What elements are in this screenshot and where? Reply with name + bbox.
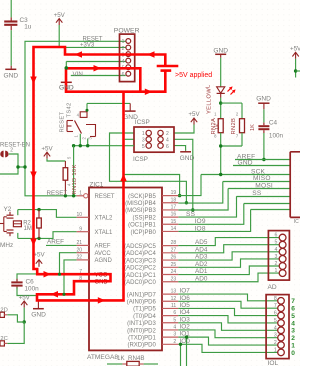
svg-text:3: 3 [142, 138, 145, 144]
svg-text:26: 26 [171, 255, 177, 261]
svg-text:XTAL2: XTAL2 [95, 216, 114, 222]
svg-text:AD3: AD3 [195, 254, 208, 261]
svg-text:2: 2 [166, 131, 169, 137]
resistor RN1D 10K [64, 161, 66, 168]
wire MOSI label line [228, 188, 290, 190]
+5V symbol right edge [292, 52, 298, 56]
svg-text:11: 11 [171, 303, 176, 309]
pin 8 GND [77, 280, 89, 282]
svg-text:>5V applied: >5V applied [175, 72, 212, 79]
svg-text:3: 3 [173, 332, 176, 338]
wire LED to resistors [220, 98, 222, 119]
ground switch [129, 103, 131, 111]
wire RESET row to ICSP [74, 145, 134, 147]
svg-text:IO4: IO4 [180, 309, 191, 316]
svg-text:1: 1 [274, 347, 277, 353]
svg-text:7: 7 [274, 303, 277, 309]
svg-text:3: 3 [274, 333, 277, 339]
pin 14 (ICP)PB0 [162, 230, 178, 232]
ground label above LED [215, 53, 226, 55]
svg-text:GND: GND [213, 48, 228, 55]
arrow flow up return [120, 174, 127, 182]
ground bottom-left [37, 301, 39, 308]
pin 23 (ADC0)PC0 [162, 281, 178, 283]
pin 5 (INT1)PD3 [162, 322, 178, 324]
wire IO0 net [178, 344, 277, 352]
wire XTAL1 net [17, 233, 19, 239]
svg-text:21: 21 [76, 240, 82, 246]
svg-text:+5V: +5V [19, 294, 31, 301]
svg-text:RESET: RESET [60, 112, 66, 133]
connector POWER [120, 34, 135, 82]
svg-text:2: 2 [173, 339, 176, 345]
wire jumper to RESET net [0, 154, 18, 174]
node R2 top [37, 208, 40, 211]
svg-text:MISO: MISO [253, 175, 271, 182]
svg-text:28: 28 [171, 240, 177, 246]
pin 3 (TXD)PD1 [162, 336, 178, 338]
svg-text:17: 17 [171, 205, 177, 211]
svg-text:RESET: RESET [83, 37, 103, 43]
wire GND net from POWER pin4 [66, 61, 125, 63]
svg-text:ICSP: ICSP [133, 156, 148, 163]
svg-text:AD: AD [268, 284, 277, 291]
node MISO row18 [185, 201, 188, 204]
wire row17 to MOSI line [178, 189, 228, 211]
wire ICSP VCC to +5V [174, 125, 194, 134]
svg-text:16: 16 [171, 212, 177, 218]
pin 16 (SS)PB2 [162, 216, 178, 218]
pin 18 (MISO)PB4 [162, 202, 178, 204]
arrow flow left GND [51, 291, 59, 298]
svg-text:(ADC1)PC1: (ADC1)PC1 [124, 273, 156, 279]
svg-text:+5V: +5V [188, 111, 200, 118]
wire ICSP MISO net [110, 133, 187, 203]
svg-text:(SCK)PB5: (SCK)PB5 [128, 194, 156, 200]
+5V symbol top-left [56, 19, 62, 23]
pin 13 (AIN1)PD7 [162, 293, 178, 295]
svg-text:GND: GND [31, 311, 46, 318]
pin 4 (INT0)PD2 [162, 329, 178, 331]
svg-text:IC: IC [294, 219, 299, 225]
svg-text:(RXD)PD0: (RXD)PD0 [127, 343, 156, 349]
svg-text:GND: GND [123, 114, 138, 121]
wire +3V3 net [58, 25, 60, 47]
wire C3 to ground [10, 30, 12, 66]
pin 9 XTAL1 [77, 231, 89, 233]
svg-text:GND: GND [59, 85, 74, 92]
svg-text:5: 5 [274, 318, 277, 324]
svg-text:(SS)PB2: (SS)PB2 [132, 215, 156, 221]
svg-text:5: 5 [142, 144, 145, 150]
pin 27 (ADC4)PC4 [162, 252, 178, 254]
wire AGND net [64, 260, 77, 294]
gate 2C [0, 341, 4, 346]
wire row18 to MISO line [178, 182, 223, 204]
svg-text:4: 4 [274, 325, 277, 331]
arrow flow down 3 [30, 239, 37, 247]
battery >5V applied [157, 65, 179, 68]
node MOSI row17 [191, 208, 194, 211]
node SCK row19 [178, 194, 181, 197]
pin 25 (ADC2)PC2 [162, 266, 178, 268]
svg-text:RESET-EN: RESET-EN [0, 142, 30, 148]
svg-text:+5V: +5V [54, 12, 66, 19]
svg-text:(T1)PD5: (T1)PD5 [133, 307, 156, 313]
+5V symbol near ICSP [191, 118, 197, 122]
pin 10 XTAL2 [77, 216, 89, 218]
+5V symbol at VCC corner [36, 260, 42, 264]
svg-text:(MISO)PB4: (MISO)PB4 [125, 201, 156, 207]
svg-text:1K: 1K [215, 123, 221, 130]
svg-text:RESET: RESET [47, 190, 68, 197]
svg-text:6: 6 [274, 311, 277, 317]
svg-text:IO6: IO6 [180, 295, 191, 302]
wire AD1 net [178, 266, 279, 275]
wire +5V right edge [295, 59, 297, 78]
svg-text:22: 22 [76, 255, 82, 261]
svg-text:1: 1 [79, 190, 82, 196]
svg-text:2: 2 [122, 46, 125, 52]
pin 17 (MOSI)PB3 [162, 209, 178, 211]
svg-text:9: 9 [79, 226, 82, 232]
svg-text:MHz: MHz [0, 242, 13, 249]
wire IO9 row15 [178, 204, 244, 225]
wire TXD tap [186, 337, 188, 366]
svg-text:15: 15 [171, 219, 177, 225]
pin 26 (ADC3)PC3 [162, 259, 178, 261]
wire SCK label line [201, 174, 290, 176]
wire AD4 net [178, 245, 279, 253]
svg-text:GND: GND [238, 159, 253, 166]
wire IO8 row14 [178, 210, 250, 232]
svg-text:SS: SS [252, 190, 262, 197]
wire ICSP SCK net [125, 138, 134, 140]
wire GND label line [233, 165, 290, 167]
wire resistors to SCK line [220, 133, 222, 175]
svg-text:8: 8 [274, 296, 277, 302]
svg-text:2: 2 [291, 335, 295, 342]
arrow flow right VIN [94, 65, 102, 72]
svg-text:(ADC5)PC5: (ADC5)PC5 [124, 244, 156, 250]
wire IO7 net [178, 294, 277, 301]
resistor RN2A 1K [218, 119, 223, 133]
svg-text:1: 1 [122, 39, 125, 45]
wire RESET row down to ZIC [73, 146, 75, 196]
svg-text:(AIN0)PD6: (AIN0)PD6 [127, 300, 157, 306]
svg-text:3: 3 [291, 328, 295, 335]
connector IOL [266, 295, 289, 359]
svg-text:IO7: IO7 [180, 288, 191, 295]
svg-text:AD2: AD2 [195, 261, 208, 268]
svg-text:1: 1 [142, 131, 145, 137]
svg-text:4: 4 [291, 320, 295, 327]
pin 28 (ADC5)PC5 [162, 245, 178, 247]
svg-text:(TXD)PD1: (TXD)PD1 [128, 335, 156, 341]
svg-text:RN2B: RN2B [231, 118, 237, 135]
svg-text:RN1D 10K: RN1D 10K [72, 164, 78, 194]
node VIN-GND junction [65, 66, 68, 69]
svg-text:AD1: AD1 [195, 268, 208, 275]
node SCK-LED resistor [219, 173, 222, 176]
wire SS label line [237, 196, 291, 198]
wire highlighted +5V path [34, 47, 166, 300]
pin 2 (RXD)PD0 [162, 343, 178, 345]
svg-text:6: 6 [173, 310, 176, 316]
svg-text:12: 12 [171, 296, 177, 302]
wire XTAL2 net [17, 210, 19, 216]
svg-text:7: 7 [291, 298, 295, 305]
wire AD3 net [178, 252, 279, 260]
svg-text:GND: GND [3, 73, 18, 80]
svg-text:YELLOW: YELLOW [207, 88, 213, 114]
pin 15 (OC1)PB1 [162, 223, 178, 225]
svg-text:(INT1)PD3: (INT1)PD3 [127, 321, 156, 327]
node AGND on GND line [62, 293, 65, 296]
svg-text:XTAL1: XTAL1 [95, 230, 114, 236]
connector ICSP [134, 127, 174, 152]
svg-text:23: 23 [171, 276, 177, 282]
ground C3 [10, 66, 12, 70]
pin 1 RESET [77, 195, 84, 197]
wire AVCC net [60, 253, 77, 275]
node VIN-GND junction overlay [65, 66, 68, 69]
svg-text:4: 4 [122, 59, 125, 65]
wire AD0 net [178, 273, 279, 282]
svg-text:19: 19 [171, 190, 177, 196]
svg-text:(AIN1)PD7: (AIN1)PD7 [127, 292, 157, 298]
wire MISO label line [223, 181, 290, 183]
svg-text:2: 2 [274, 340, 277, 346]
pin 12 (AIN0)PD6 [162, 300, 178, 302]
svg-text:IOL: IOL [268, 360, 279, 366]
ground near VIN (highlighted) [61, 81, 72, 83]
svg-text:6: 6 [291, 306, 295, 313]
node jumper-RESET [16, 165, 19, 168]
resistor R2 1M [38, 210, 40, 218]
svg-text:18: 18 [171, 197, 177, 203]
wire SS row16 [178, 196, 236, 217]
LED arrows [228, 88, 232, 92]
svg-text:1: 1 [291, 342, 295, 349]
svg-text:25: 25 [171, 262, 177, 268]
arrow flow right VCC [44, 271, 52, 278]
node right edge [294, 69, 297, 72]
svg-text:14: 14 [171, 226, 177, 232]
svg-text:2D: 2D [0, 307, 7, 313]
svg-text:MOSI: MOSI [255, 182, 273, 189]
wire IO8 to edge connector [251, 209, 291, 211]
wire IO2 net [178, 330, 277, 338]
svg-text:POWER: POWER [114, 27, 140, 34]
wire IO5 net [178, 308, 277, 315]
connector right edge [290, 152, 301, 218]
wire switch pins to RESET row [79, 134, 81, 146]
svg-text:6: 6 [166, 144, 169, 150]
+5V symbol for RN1D [44, 152, 50, 156]
wire +5V to serial side [23, 308, 25, 322]
svg-text:1: 1 [275, 268, 278, 274]
wire ICSP GND [174, 146, 186, 151]
wire to gate 2D [7, 315, 24, 322]
svg-text:4: 4 [173, 325, 176, 331]
svg-text:+5V: +5V [290, 46, 300, 53]
svg-text:ATMEGA8: ATMEGA8 [87, 354, 118, 361]
svg-text:1u: 1u [24, 24, 32, 31]
wire highlighted VIN branch [66, 68, 140, 91]
wire IO1 net [178, 337, 277, 345]
svg-text:2: 2 [10, 148, 13, 154]
svg-text:+5V: +5V [41, 146, 53, 153]
svg-text:5: 5 [275, 240, 278, 246]
svg-text:6: 6 [275, 233, 278, 239]
wire IO6 net [178, 301, 277, 308]
svg-text:(ADC3)PC3: (ADC3)PC3 [124, 258, 156, 264]
pin 22 AGND [77, 259, 89, 261]
wire +5V to RN1D [47, 159, 65, 161]
wire AD5 net [178, 238, 279, 246]
svg-text:2: 2 [275, 261, 278, 267]
capacitor C6 100n [17, 274, 36, 281]
pin 19 (SCK)PB5 [162, 195, 178, 197]
svg-text:(MOSI)PB3: (MOSI)PB3 [125, 208, 156, 214]
arrow flow down 2 [30, 172, 37, 180]
svg-text:IO2: IO2 [180, 324, 191, 331]
LED yellow [217, 87, 225, 93]
wire highlighted GND return [66, 68, 165, 91]
gate 2D [0, 312, 4, 317]
svg-text:IO3: IO3 [180, 316, 191, 323]
svg-text:+3V3: +3V3 [80, 43, 95, 49]
wire AD2 net [178, 259, 279, 267]
svg-text:IO5: IO5 [180, 302, 191, 309]
svg-text:20: 20 [76, 247, 82, 253]
svg-text:100n: 100n [269, 133, 284, 140]
wire IO4 net [178, 316, 277, 323]
svg-text:5: 5 [291, 313, 295, 320]
svg-text:0: 0 [291, 350, 295, 357]
svg-text:1M: 1M [24, 226, 32, 232]
node LED cathode [219, 101, 222, 104]
svg-text:(ICP)PB0: (ICP)PB0 [130, 230, 156, 236]
svg-text:C4: C4 [269, 120, 278, 127]
svg-text:+5V: +5V [33, 252, 45, 259]
svg-text:GND: GND [256, 96, 271, 103]
wire ICSP MOSI riser [174, 139, 193, 210]
svg-text:IO8: IO8 [195, 225, 206, 232]
svg-text:AD5: AD5 [195, 239, 208, 246]
arrow flow left top [75, 51, 83, 58]
node AVCC on +5V line [58, 273, 61, 276]
svg-text:(ADC2)PC2: (ADC2)PC2 [124, 266, 156, 272]
capacitor C3 [10, 0, 12, 17]
svg-text:AVCC: AVCC [95, 251, 112, 257]
wire switch to GND [86, 103, 88, 110]
wire RESET net from POWER [25, 41, 126, 196]
svg-text:(OC1)PB1: (OC1)PB1 [128, 223, 156, 229]
arrow flow down 1 [30, 77, 37, 85]
svg-text:5: 5 [173, 317, 176, 323]
wire IO3 net [178, 323, 277, 331]
svg-text:(T0)PD4: (T0)PD4 [133, 314, 156, 320]
pin 7 VCC [77, 273, 89, 275]
wire AREF label line [235, 159, 290, 161]
svg-text:SS: SS [186, 211, 196, 218]
svg-text:(INT0)PD2: (INT0)PD2 [127, 328, 156, 334]
node RN1D-RESET [64, 194, 67, 197]
svg-text:VIN: VIN [73, 71, 83, 78]
arrow flow left battery [147, 51, 155, 58]
svg-text:2C: 2C [0, 336, 7, 342]
node switch pins [72, 144, 75, 147]
pin 6 (T0)PD4 [162, 315, 178, 317]
pin 20 AVCC [77, 252, 89, 254]
svg-text:27: 27 [171, 247, 177, 253]
wire VIN net [71, 75, 126, 77]
pin 24 (ADC1)PC1 [162, 274, 178, 276]
wire RXD tap [180, 344, 182, 366]
svg-text:24: 24 [171, 269, 177, 275]
switch body S1 [66, 121, 68, 132]
pin 11 (T1)PD5 [162, 307, 178, 309]
svg-text:100n: 100n [25, 286, 40, 293]
connector AD [268, 231, 289, 281]
svg-text:AD4: AD4 [195, 246, 208, 253]
svg-text:AGND: AGND [95, 258, 113, 264]
svg-text:AREF: AREF [47, 239, 64, 246]
capacitor C4 100n [263, 109, 265, 122]
svg-text:4: 4 [166, 138, 169, 144]
node switch-GND [86, 109, 89, 112]
pin 21 AREF [77, 244, 89, 246]
wire to gate 2C [7, 322, 24, 343]
svg-text:13: 13 [171, 289, 177, 295]
svg-text:TS42: TS42 [67, 102, 73, 117]
wire IO9 to edge connector [244, 203, 290, 205]
node C4 on AREF line [262, 158, 265, 161]
node RN2 join [219, 144, 222, 147]
wire AREF stub [46, 244, 77, 246]
svg-text:GND: GND [180, 155, 195, 162]
resistor RN2B 1K [240, 119, 245, 133]
arrow flow right battery return [145, 88, 153, 95]
svg-text:4: 4 [275, 247, 278, 253]
svg-text:RESET: RESET [95, 194, 115, 200]
svg-text:IO9: IO9 [195, 218, 206, 225]
svg-text:(ADC4)PC4: (ADC4)PC4 [124, 251, 156, 257]
svg-text:6: 6 [122, 72, 125, 78]
svg-text:AD0: AD0 [195, 275, 208, 282]
node R2 bottom [37, 237, 40, 240]
wire row19 to SCK line [178, 175, 201, 196]
svg-text:10: 10 [76, 212, 82, 218]
svg-text:AREF: AREF [95, 244, 111, 250]
svg-text:(ADC0)PC0: (ADC0)PC0 [124, 280, 156, 286]
+5V symbol bottom-left [21, 301, 27, 305]
ground ICSP [180, 151, 191, 153]
svg-text:C6: C6 [26, 279, 35, 286]
svg-text:3: 3 [275, 254, 278, 260]
svg-text:1K: 1K [250, 124, 256, 131]
node serial +5V [23, 320, 26, 323]
wire GND to LED [220, 58, 222, 87]
arrow flow right bottom [98, 297, 106, 304]
